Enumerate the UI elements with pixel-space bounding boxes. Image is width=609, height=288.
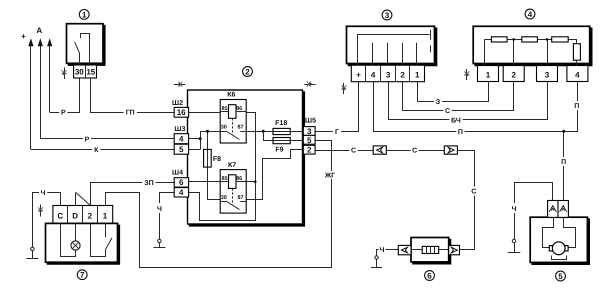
- svg-text:7: 7: [80, 271, 85, 280]
- svg-text:4: 4: [528, 10, 533, 19]
- svg-text:К6: К6: [227, 92, 235, 99]
- svg-text:3: 3: [385, 11, 390, 20]
- node: P-bus junction: [562, 130, 565, 133]
- resistor R1: [491, 37, 507, 42]
- svg-text:5: 5: [307, 136, 312, 145]
- svg-text:Ш4: Ш4: [172, 170, 183, 177]
- node: K7 coil ground junction: [254, 181, 257, 184]
- svg-text:2: 2: [88, 212, 93, 221]
- wire Ch: washer pump 6 to ground: [377, 250, 399, 258]
- wire P bus: wiper 3 pin4 to resistor 4 pin4 and pump 5: [374, 82, 578, 132]
- svg-text:Ч: Ч: [41, 190, 46, 197]
- svg-text:Ш2: Ш2: [172, 100, 183, 107]
- relay K6: [220, 92, 246, 143]
- ground: Sh4.4: [159, 241, 161, 248]
- resistor R2: [522, 37, 538, 42]
- svg-text:87: 87: [237, 195, 243, 201]
- connector on right of pump 6: [449, 245, 460, 254]
- node: R1-R2 junction: [512, 38, 515, 41]
- svg-text:87: 87: [237, 125, 243, 131]
- svg-text:4: 4: [575, 71, 580, 80]
- svg-text:+: +: [356, 70, 361, 79]
- wiper motor (3): [347, 10, 438, 82]
- connector pair X1 on C wire: [373, 146, 386, 154]
- relay K7: [220, 162, 246, 213]
- wire P: junction down to pump 5 right terminal: [563, 131, 565, 200]
- svg-text:А: А: [36, 26, 42, 35]
- node: F8 tap junction: [206, 130, 209, 133]
- wire: K6 87 to fuses F18/F9 and Sh5: [246, 131, 303, 133]
- wire Z: wiper 3 pin1 to resistor 4 pin1: [418, 82, 489, 102]
- svg-text:Р: Р: [85, 136, 90, 143]
- svg-text:F8: F8: [213, 156, 221, 163]
- connector Sh3 pins 4,5: [174, 126, 188, 154]
- svg-text:З: З: [436, 99, 441, 106]
- node: R2-R3 junction: [546, 38, 549, 41]
- washer pump (6): [398, 238, 459, 281]
- wire: battery feed + (K wire to arrow): [30, 44, 32, 149]
- svg-text:3: 3: [545, 71, 550, 80]
- wire: feed to ignition switch 30: [49, 44, 51, 112]
- wire-break symbol right of block 2: [304, 84, 315, 86]
- node: F18/F9 tap junction: [262, 130, 265, 133]
- svg-text:6: 6: [427, 271, 432, 280]
- wire: F8 branch down to K7 contact 30: [208, 132, 221, 200]
- interference symbol at wiper motor: [343, 83, 345, 94]
- svg-text:D: D: [72, 212, 78, 221]
- ground: switch 7: [32, 249, 34, 259]
- wire Ch: pump 5 left terminal to ground: [515, 183, 553, 242]
- wire Ch: Sh4.4 to ground: [160, 193, 175, 241]
- svg-text:БЧ: БЧ: [451, 117, 461, 124]
- svg-text:К7: К7: [228, 162, 236, 169]
- svg-text:5: 5: [179, 145, 184, 154]
- svg-text:4: 4: [179, 188, 184, 197]
- fuse F8: [204, 149, 221, 167]
- connector on left of pump 6: [398, 245, 411, 254]
- wiper-washer switch (7): [46, 206, 121, 280]
- svg-text:1: 1: [486, 71, 491, 80]
- svg-text:4: 4: [179, 135, 184, 144]
- wire G: Sh5.3 to wiper motor +: [316, 82, 359, 132]
- svg-text:6: 6: [179, 178, 184, 187]
- svg-text:2: 2: [511, 71, 516, 80]
- wire Ch: switch 7 pin C to ground: [33, 193, 61, 249]
- svg-text:3: 3: [386, 70, 391, 79]
- wire: generator feed A (P wire to arrow): [40, 44, 42, 138]
- interference symbol at ignition switch: [64, 68, 66, 80]
- svg-text:ЗП: ЗП: [144, 180, 153, 187]
- connector pair X2 on C wire: [444, 146, 457, 154]
- svg-text:Ш5: Ш5: [305, 118, 316, 125]
- wire P: Sh3.4 to feed arrow: [40, 138, 174, 140]
- svg-text:2: 2: [307, 146, 312, 155]
- wire ZP: switch 7 pin2 to Sh4.6: [91, 183, 175, 206]
- fuse F18: [273, 120, 290, 134]
- svg-text:30: 30: [221, 195, 227, 201]
- svg-text:П: П: [458, 129, 463, 136]
- connector Sh5 pins 3,5,2: [303, 118, 316, 155]
- svg-text:Ч: Ч: [512, 206, 517, 213]
- wire GP: ignition 15 to Sh2.16: [91, 79, 175, 113]
- interference symbol at resistor block: [466, 69, 468, 80]
- svg-text:16: 16: [177, 108, 186, 117]
- wire S: wiper 3 pin2 to resistor 4 pin2: [403, 82, 514, 111]
- resistor R3: [552, 37, 569, 42]
- motor element in pump 6: [422, 246, 439, 253]
- svg-text:2: 2: [245, 67, 250, 76]
- svg-text:30: 30: [75, 68, 84, 77]
- svg-text:К: К: [94, 147, 99, 154]
- wire C: Sh5.2 to connectors and washer pump 6: [315, 150, 373, 152]
- wire JG: switch 7 pin1 to Sh5.5 (long route): [106, 141, 332, 268]
- svg-text:Р: Р: [61, 110, 66, 117]
- svg-text:ГП: ГП: [126, 110, 135, 117]
- svg-text:1: 1: [103, 212, 108, 221]
- ground: washer pump 6: [376, 257, 378, 267]
- svg-text:30: 30: [221, 125, 227, 131]
- svg-text:F18: F18: [275, 120, 287, 127]
- svg-text:Ш3: Ш3: [174, 126, 185, 133]
- motor M in pump 5: [552, 242, 565, 255]
- svg-text:1: 1: [82, 10, 87, 19]
- connector Sh2 pin 16: [172, 100, 189, 117]
- svg-text:1: 1: [415, 70, 420, 79]
- wire BCh: wiper 3 pin3 to resistor 4 pin3: [389, 82, 548, 120]
- svg-text:3: 3: [307, 127, 312, 136]
- connector terminals on pump 5: [548, 201, 558, 218]
- svg-text:П: П: [574, 103, 579, 110]
- wire: jumper D-stub diagonal: [76, 192, 91, 205]
- svg-text:4: 4: [371, 70, 376, 79]
- wire: K7 87 to Sh5.2: [247, 150, 304, 200]
- svg-text:+: +: [21, 32, 26, 41]
- svg-text:Г: Г: [335, 129, 339, 136]
- wire: K6 coil 86 / K7 coil 86 / Sh4.4 common ground net: [189, 113, 256, 221]
- svg-text:Ч: Ч: [380, 247, 385, 254]
- fuse F9: [273, 138, 290, 154]
- connector Sh4 pins 6,4: [172, 170, 189, 198]
- svg-text:C: C: [57, 212, 63, 221]
- interference symbol at switch 7: [40, 205, 42, 217]
- svg-text:С: С: [412, 148, 417, 155]
- wire K: Sh3.5 to feed arrow: [31, 149, 174, 151]
- svg-text:С: С: [445, 108, 450, 115]
- wire-break symbol left of block 2: [174, 84, 185, 86]
- svg-text:С: С: [471, 189, 476, 196]
- ignition switch (1): [67, 10, 106, 79]
- svg-text:F9: F9: [275, 146, 283, 153]
- svg-text:5: 5: [558, 272, 563, 281]
- svg-text:С: С: [351, 148, 356, 155]
- resistor R4 vertical: [573, 44, 580, 61]
- wire: Sh4.6 to K7 coil 85: [189, 181, 229, 183]
- svg-text:Ч: Ч: [157, 206, 162, 213]
- wire: Sh2.16 to relay K6 coil 85: [189, 112, 229, 114]
- svg-text:2: 2: [400, 70, 405, 79]
- wire: Sh3.4 + Sh3.5 to K6 contact 30 and fuse F8: [189, 138, 201, 140]
- svg-text:ЖГ: ЖГ: [324, 173, 335, 180]
- mounting block (2): [188, 67, 306, 227]
- resistor block (4): [473, 9, 592, 81]
- illumination lamp in switch 7: [71, 241, 80, 250]
- svg-text:15: 15: [86, 68, 95, 77]
- svg-text:П: П: [561, 159, 566, 166]
- ground: pump 5: [514, 241, 516, 252]
- pump intake bracket: [552, 256, 567, 260]
- washer pump (5): [530, 201, 590, 281]
- node: Sh3.4/Sh3.5 junction: [199, 137, 202, 140]
- wire P: ignition 30 to feed arrow: [50, 79, 80, 113]
